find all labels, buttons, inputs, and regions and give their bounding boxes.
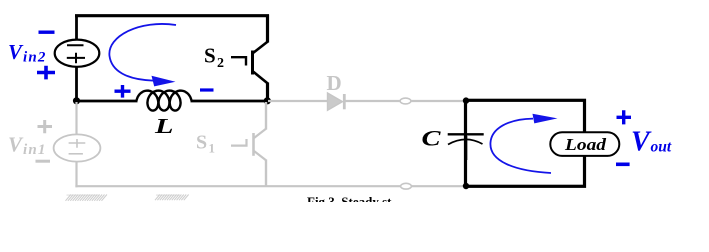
wire middle rail right (191, 100, 269, 103)
Vin1 internal minus (69, 153, 83, 155)
svg-text:in2: in2 (23, 50, 47, 66)
wire bottom rail (75, 185, 464, 187)
svg-text:L: L (154, 114, 174, 138)
hatch mark left (66, 195, 107, 201)
svg-text:2: 2 (217, 56, 224, 71)
svg-text:V: V (8, 133, 24, 157)
node rect bottom-left (463, 183, 469, 189)
label L plus polarity (115, 85, 131, 98)
node rect top-left (463, 97, 469, 103)
wire Vin1 top lead (75, 102, 77, 135)
svg-text:S: S (196, 132, 207, 154)
svg-text:V: V (631, 127, 652, 158)
wire Vin1 bottom lead (75, 162, 77, 188)
wire top rail (75, 14, 269, 17)
hatch mark right (155, 195, 189, 201)
svg-text:Fig 3. Steady st: Fig 3. Steady st (307, 194, 392, 209)
diode D (328, 93, 343, 110)
wire Vin2 bottom lead (75, 66, 78, 102)
S2 gate lead (231, 57, 246, 65)
terminal node middle (400, 98, 411, 104)
label Vin1 plus polarity (38, 120, 53, 133)
svg-text:C: C (422, 125, 441, 150)
current loop arrow output (490, 119, 551, 173)
node junction left (73, 97, 80, 104)
svg-text:1: 1 (209, 141, 216, 156)
label Vin2 plus polarity (37, 66, 55, 80)
label Vout plus polarity (617, 110, 632, 124)
svg-text:V: V (8, 40, 24, 64)
source Vin1 (54, 134, 101, 161)
load (550, 132, 619, 156)
current loop arrow input (109, 24, 176, 81)
inductor L coil (137, 91, 192, 111)
transistor S2 (266, 15, 269, 43)
label Vin2 minus polarity (39, 31, 55, 34)
label Vout minus polarity (616, 163, 630, 167)
svg-text:S: S (204, 44, 216, 68)
Vin2 internal minus (67, 44, 84, 46)
label Vin1 minus polarity (36, 160, 51, 163)
svg-text:D: D (327, 71, 342, 95)
wire to terminal (345, 100, 464, 102)
wire middle rail gray (268, 100, 327, 102)
wire Vin2 top lead (75, 15, 78, 42)
S1 gate lead (231, 139, 247, 146)
wire middle rail left (75, 100, 138, 103)
grayed source Vin1 branch (36, 102, 465, 187)
capacitor C (448, 133, 484, 135)
svg-text:Load: Load (564, 135, 607, 154)
terminal node bottom (401, 183, 412, 189)
svg-text:in1: in1 (23, 142, 47, 158)
node junction right (264, 97, 271, 104)
Vin2 internal plus (67, 53, 85, 63)
transistor S1 (grayed) (231, 102, 266, 187)
grayed diode branch (268, 93, 464, 189)
caption Fig 3 (cropped) (307, 194, 392, 209)
label L minus polarity (200, 88, 214, 91)
output loop rectangle (466, 100, 585, 186)
source Vin2 (55, 40, 100, 67)
Vin1 internal plus (69, 139, 86, 148)
svg-text:out: out (651, 139, 672, 156)
